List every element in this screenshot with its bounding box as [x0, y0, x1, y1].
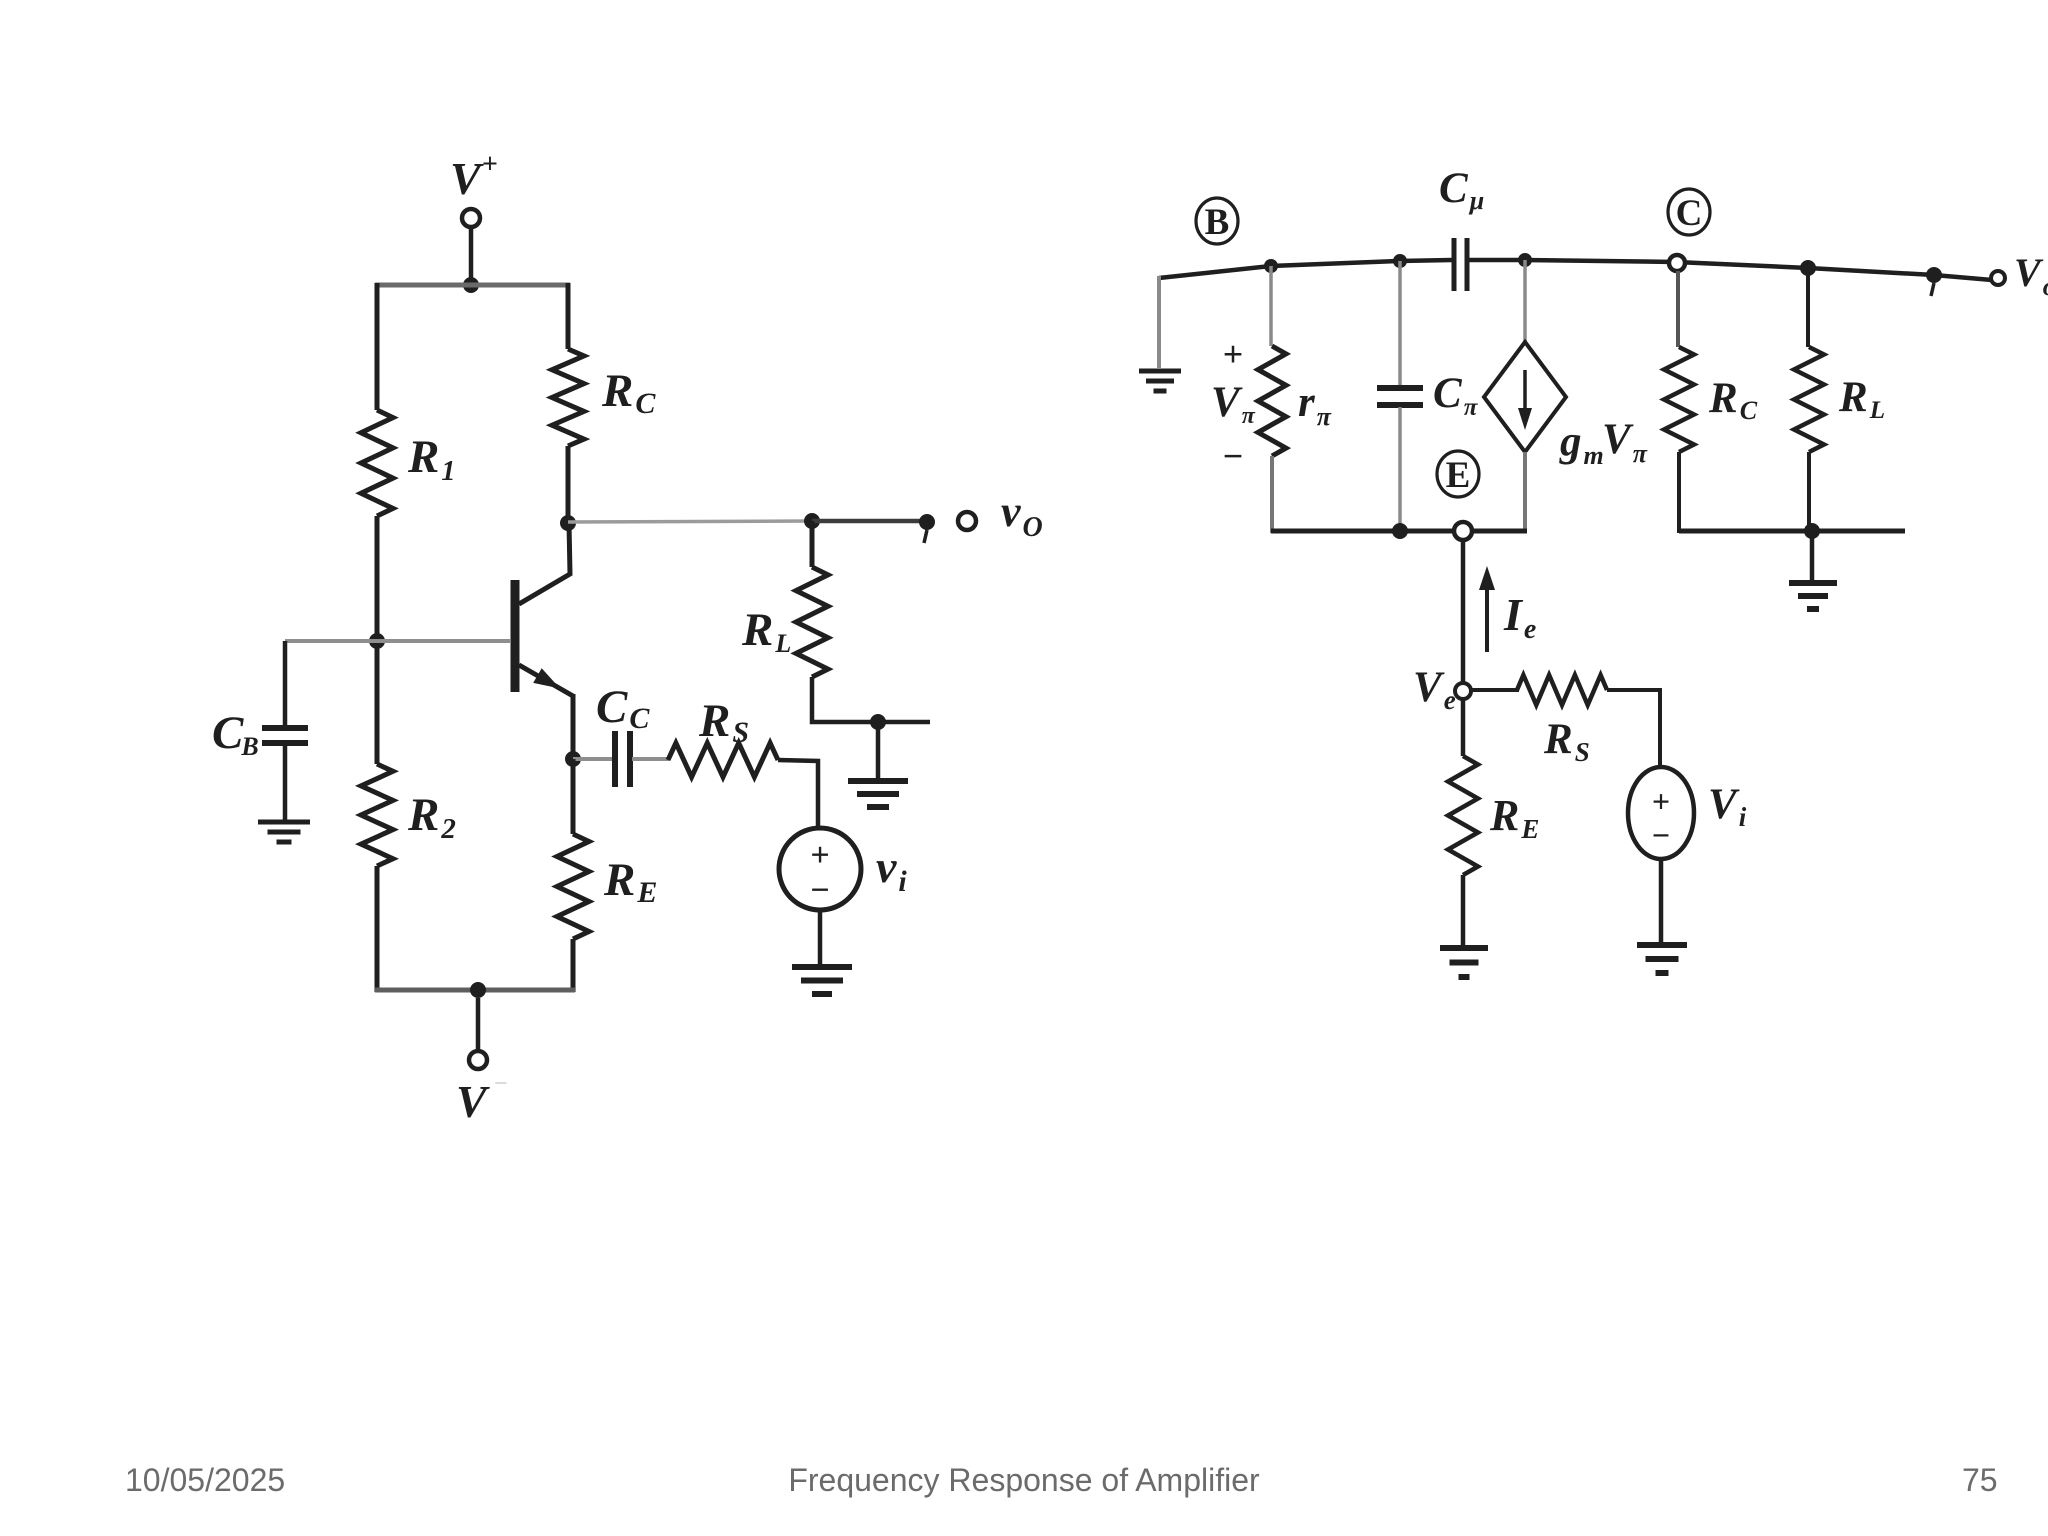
ground (below vi) [792, 967, 852, 994]
wire vi to ground [818, 910, 823, 964]
wire ground junction down [1810, 531, 1815, 580]
resistor RE (right circuit) [1448, 756, 1478, 875]
svg-text:Vπ: Vπ [1602, 416, 1648, 468]
power terminal V+ [462, 209, 480, 227]
wire top net B-C (right of Cmu) [1469, 260, 1992, 280]
label vO [1001, 487, 1043, 543]
label RC (left circuit) [601, 365, 656, 420]
label RS (left circuit) [698, 695, 749, 749]
node: Cpi bottom junction [1392, 523, 1408, 539]
label CC [596, 681, 650, 735]
svg-text:Vi: Vi [1708, 781, 1747, 832]
svg-text:CC: CC [596, 681, 650, 735]
wire emitter node to CC [573, 757, 613, 761]
node: ground junction (right circuit) [1804, 523, 1820, 539]
svg-text:gm: gm [1559, 418, 1604, 470]
wire output line (collector to RL) [568, 521, 812, 522]
svg-text:Cμ: Cμ [1439, 165, 1484, 215]
wire RS to vi source [778, 760, 818, 828]
wire CB to ground [283, 746, 288, 821]
svg-text:E: E [1446, 455, 1471, 496]
wire RE to ground [1461, 875, 1466, 945]
output terminal Vo [1991, 271, 2005, 285]
wire RC bottom (right circuit) [1677, 452, 1681, 533]
capacitor Cmu [1454, 238, 1467, 291]
node C circled label [1668, 189, 1710, 235]
node: base junction [369, 633, 385, 649]
svg-text:Cπ: Cπ [1433, 370, 1479, 421]
footer date [0, 1461, 2048, 1463]
label Vpi [1211, 379, 1256, 429]
wire RL junction to ground [876, 722, 881, 779]
wire bottom net (rpi to gm source) [1271, 529, 1527, 534]
svg-text:RE: RE [603, 854, 657, 909]
node: RL top junction (right circuit) [1800, 260, 1816, 276]
node: output tap [919, 514, 935, 543]
wire top net B-C (left of Cmu) [1159, 260, 1452, 278]
svg-text:Vπ: Vπ [1211, 379, 1256, 429]
node C terminal (on top net) [1669, 255, 1685, 271]
wire bottom net (RC to RL, right circuit) [1679, 529, 1905, 534]
svg-text:+: + [1223, 334, 1244, 374]
svg-text:+: + [810, 837, 829, 874]
source vi (independent) [779, 828, 861, 910]
resistor RL (left circuit) [796, 567, 828, 677]
svg-text:Ie: Ie [1503, 589, 1536, 645]
power terminal V- [469, 1051, 487, 1069]
svg-text:V: V [456, 1076, 490, 1127]
wire RE to bottom rail [571, 939, 576, 992]
label vi [876, 841, 907, 898]
label Vi [1708, 781, 1747, 832]
output terminal vO [958, 512, 976, 530]
svg-text:vi: vi [876, 841, 907, 898]
svg-text:R2: R2 [407, 789, 456, 845]
wire RL lower [812, 677, 930, 722]
ground (below RL) [848, 781, 908, 807]
wire RC branch upper (top rail to RC) [566, 283, 571, 349]
wire Ve to RE [1461, 699, 1466, 756]
node B circled label [1196, 198, 1238, 244]
svg-text:RS: RS [698, 695, 749, 749]
wire base node to R2 [375, 641, 380, 764]
wire bottom rail [375, 988, 575, 993]
svg-text:RS: RS [1543, 716, 1590, 767]
wire R2 to bottom rail [375, 866, 380, 992]
current arrow Ie [1479, 566, 1495, 652]
wire RC top (right circuit) [1676, 271, 1680, 347]
svg-text:RL: RL [1838, 374, 1885, 424]
capacitor Cpi [1377, 388, 1423, 405]
wire Vi to ground [1659, 859, 1664, 942]
svg-text:−: − [1223, 436, 1244, 476]
wire emitter node to RE [571, 759, 576, 834]
svg-text:RL: RL [741, 604, 791, 658]
label R1 [407, 431, 455, 487]
label RE (right circuit) [1489, 791, 1539, 844]
transistor Q1 base bar [511, 580, 520, 692]
ground (below B) [1139, 371, 1181, 391]
wire V+ terminal to top rail [469, 227, 474, 282]
resistor RS (left circuit) [668, 743, 778, 777]
node E circled label [1437, 451, 1479, 497]
node Ve terminal [1455, 683, 1471, 699]
resistor R1 [361, 410, 393, 516]
wire CC to RS [632, 757, 669, 761]
node: rpi top junction [1264, 259, 1278, 273]
wire gm source bottom [1523, 452, 1527, 533]
wire B end to ground [1157, 276, 1161, 368]
wire bottom rail to V- terminal [476, 998, 481, 1052]
svg-text:−: − [1652, 817, 1670, 853]
wire R1 to base node [375, 516, 380, 644]
node: output tap (right circuit) [1926, 267, 1942, 296]
label Cpi [1433, 370, 1479, 421]
transistor Q1 emitter lead with arrow [519, 665, 573, 696]
label RC (right circuit) [1708, 375, 1758, 425]
capacitor CC [615, 731, 630, 787]
resistor RC (right circuit) [1664, 347, 1694, 452]
svg-text:C: C [1676, 193, 1703, 234]
label Ve [1413, 664, 1456, 715]
label + (Vpi polarity) [1223, 334, 1244, 374]
label RL (right circuit) [1838, 374, 1885, 424]
wire RL upper [810, 521, 815, 567]
wire RL top (right circuit) [1806, 268, 1810, 347]
resistor RE (left circuit) [557, 834, 589, 939]
wire top rail [375, 283, 570, 288]
label R2 [407, 789, 456, 845]
wire Ve to RS [1471, 688, 1519, 692]
source Vi (independent) [1628, 767, 1694, 859]
dependent source gmVpi (diamond) [1484, 342, 1566, 452]
label RS (right circuit) [1543, 716, 1590, 767]
wire left branch upper (top rail to R1) [375, 283, 380, 410]
wire Cpi bottom [1398, 407, 1402, 533]
label - (Vpi polarity) [1223, 436, 1244, 476]
node: Cpi top junction [1393, 254, 1407, 268]
ground (below Vi) [1637, 945, 1687, 973]
svg-text:RC: RC [601, 365, 656, 420]
node: collector / output [560, 515, 576, 531]
ground (below RL, right circuit) [1789, 583, 1837, 609]
svg-text:−: − [494, 1071, 508, 1097]
label CB [212, 707, 259, 761]
label RE (left circuit) [603, 854, 657, 909]
svg-text:RC: RC [1708, 375, 1758, 425]
wire base (CB corner to Q1) [285, 639, 511, 643]
svg-text:rπ: rπ [1298, 379, 1332, 431]
svg-text:+: + [1652, 783, 1670, 819]
label gmVpi [1559, 416, 1648, 470]
node: gm source top junction [1518, 253, 1532, 267]
power terminal V- label [456, 1071, 508, 1127]
label RL (left circuit) [741, 604, 791, 658]
wire RL bottom (right circuit) [1807, 452, 1811, 533]
resistor RC [552, 349, 584, 446]
ground (below RE) [1440, 948, 1488, 977]
node: RL ground junction [870, 714, 886, 730]
wire emitter lead down [571, 694, 576, 761]
wire rpi bottom [1270, 456, 1274, 533]
wire RC to collector node [566, 446, 571, 525]
wire output line (RL to vO) [812, 519, 928, 524]
wire CB branch top [283, 641, 288, 727]
wire Cpi top [1398, 261, 1402, 386]
power terminal V+ label [450, 149, 498, 204]
node E terminal [1454, 522, 1472, 540]
wire rpi top [1269, 266, 1273, 346]
svg-text:Vo: Vo [2014, 250, 2048, 301]
node: RL top [804, 513, 820, 529]
label Vo [2014, 250, 2048, 301]
wire gm source top [1523, 260, 1527, 344]
resistor RS (right circuit) [1517, 675, 1607, 705]
svg-text:R1: R1 [407, 431, 455, 487]
node: emitter junction [565, 751, 581, 767]
svg-text:vO: vO [1001, 487, 1043, 543]
label Ie [1503, 589, 1536, 645]
label Cmu [1439, 165, 1484, 215]
svg-text:RE: RE [1489, 791, 1539, 844]
wire collector lead [519, 523, 570, 604]
capacitor CB [262, 728, 308, 743]
svg-text:V+: V+ [450, 149, 498, 204]
node: top rail junction [463, 277, 479, 293]
svg-text:CB: CB [212, 707, 259, 761]
resistor rpi [1258, 346, 1286, 456]
wire RS to Vi source [1607, 690, 1660, 767]
ground (below CB) [258, 822, 310, 842]
svg-text:−: − [810, 872, 829, 909]
resistor RL (right circuit) [1794, 347, 1824, 452]
node: bottom rail junction [470, 982, 486, 998]
label rpi [1298, 379, 1332, 431]
wire E to Ve [1461, 540, 1466, 684]
svg-text:B: B [1205, 202, 1230, 243]
svg-text:Ve: Ve [1413, 664, 1456, 715]
resistor R2 [361, 764, 393, 866]
